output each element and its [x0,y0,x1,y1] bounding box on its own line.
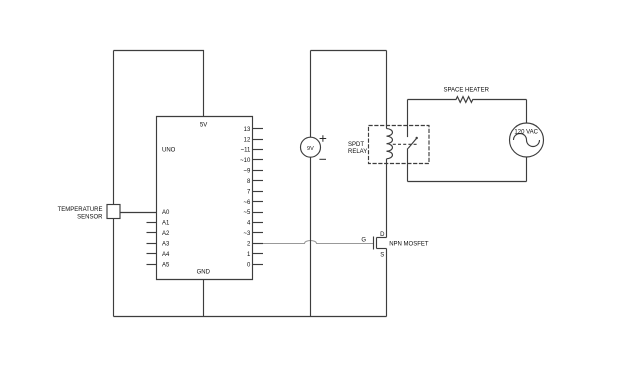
svg-text:A4: A4 [162,252,170,258]
svg-text:GND: GND [197,270,211,276]
svg-text:~5: ~5 [243,210,251,216]
svg-text:G: G [361,237,366,243]
svg-text:4: 4 [247,221,251,227]
svg-text:120 VAC: 120 VAC [514,129,538,135]
svg-text:~3: ~3 [243,231,251,237]
svg-text:NPN MOSFET: NPN MOSFET [389,242,429,248]
svg-text:13: 13 [244,127,251,133]
svg-text:SPACE HEATER: SPACE HEATER [443,87,489,93]
svg-text:A3: A3 [162,241,170,247]
svg-text:SENSOR: SENSOR [77,215,103,221]
svg-text:9V: 9V [307,146,314,152]
svg-text:5V: 5V [200,123,207,129]
svg-text:12: 12 [244,137,251,143]
svg-text:S: S [380,252,384,258]
svg-text:0: 0 [247,262,251,268]
svg-text:A5: A5 [162,262,170,268]
svg-text:~9: ~9 [243,169,251,175]
svg-text:1: 1 [247,252,251,258]
svg-text:~6: ~6 [243,200,251,206]
svg-text:D: D [380,232,385,238]
svg-text:8: 8 [247,179,251,185]
svg-text:7: 7 [247,189,251,195]
svg-text:SPDT: SPDT [348,142,364,148]
svg-text:2: 2 [247,241,251,247]
svg-text:A1: A1 [162,221,170,227]
svg-text:~10: ~10 [240,158,251,164]
svg-text:TEMPERATURE: TEMPERATURE [58,207,103,213]
svg-text:A2: A2 [162,231,170,237]
svg-text:~11: ~11 [241,148,251,154]
svg-text:UNO: UNO [162,148,176,154]
svg-text:A0: A0 [162,210,170,216]
svg-text:RELAY: RELAY [348,149,367,155]
